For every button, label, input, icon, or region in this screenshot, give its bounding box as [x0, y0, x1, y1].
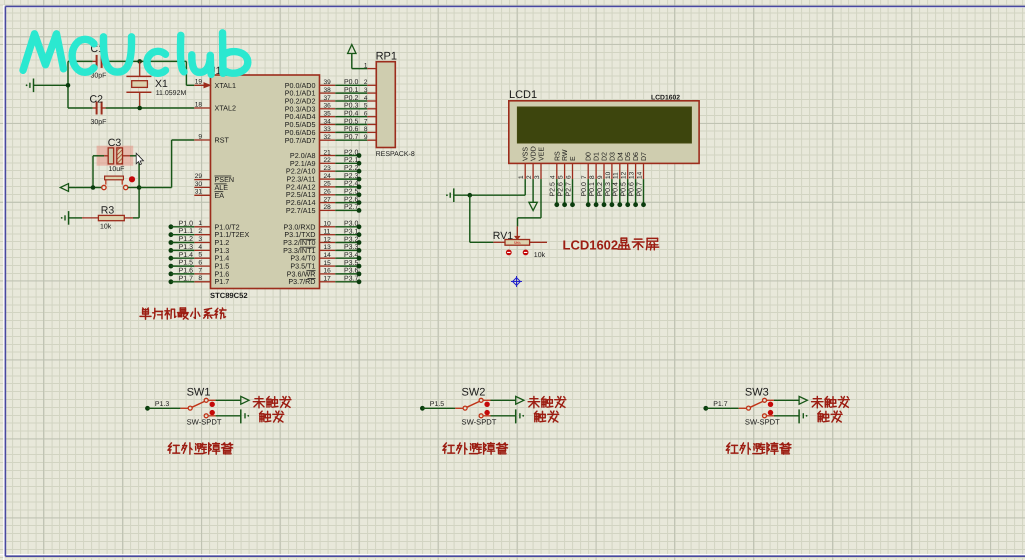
svg-text:P1.3: P1.3	[179, 244, 194, 251]
svg-text:9: 9	[198, 133, 202, 140]
svg-text:RV1: RV1	[493, 230, 513, 242]
svg-text:SW1: SW1	[187, 386, 211, 398]
svg-text:37: 37	[324, 95, 332, 102]
svg-text:P3.7: P3.7	[344, 276, 359, 283]
svg-text:R3: R3	[101, 205, 115, 217]
svg-text:5: 5	[198, 252, 202, 259]
svg-text:P3.0: P3.0	[344, 221, 359, 228]
svg-text:SW-SPDT: SW-SPDT	[187, 418, 222, 427]
svg-text:P1.1: P1.1	[179, 228, 194, 235]
svg-text:P2.6: P2.6	[344, 196, 359, 203]
svg-text:35: 35	[324, 111, 332, 118]
svg-text:P0.3: P0.3	[605, 182, 612, 197]
svg-text:SW2: SW2	[462, 386, 486, 398]
svg-text:P3.4: P3.4	[344, 252, 359, 259]
svg-text:P3.3: P3.3	[344, 244, 359, 251]
svg-text:31: 31	[195, 189, 203, 196]
svg-text:33: 33	[324, 126, 332, 133]
svg-text:3: 3	[534, 175, 541, 179]
svg-text:38: 38	[324, 87, 332, 94]
svg-text:4: 4	[198, 244, 202, 251]
svg-text:VEE: VEE	[539, 147, 546, 161]
svg-text:P0.2: P0.2	[344, 95, 359, 102]
svg-text:3: 3	[198, 236, 202, 243]
svg-text:P0.1: P0.1	[344, 87, 359, 94]
svg-text:P0.4: P0.4	[613, 182, 620, 197]
svg-text:10k: 10k	[100, 223, 112, 231]
svg-text:58%: 58%	[514, 241, 521, 245]
svg-text:P2.7: P2.7	[344, 204, 359, 211]
svg-text:P0.6: P0.6	[629, 182, 636, 197]
svg-text:10k: 10k	[534, 251, 546, 259]
svg-text:P1.5: P1.5	[430, 401, 445, 408]
svg-text:11: 11	[613, 172, 620, 179]
svg-text:LCD1602: LCD1602	[563, 238, 619, 253]
svg-text:11: 11	[324, 229, 331, 236]
svg-text:P0.5: P0.5	[344, 118, 359, 125]
svg-text:24: 24	[324, 173, 332, 180]
svg-text:P0.0: P0.0	[581, 182, 588, 197]
svg-text:P3.6: P3.6	[344, 268, 359, 275]
svg-text:2: 2	[526, 175, 533, 179]
svg-text:STC89C52: STC89C52	[210, 291, 248, 300]
svg-text:12: 12	[324, 236, 332, 243]
svg-text:22: 22	[324, 157, 332, 164]
svg-text:32: 32	[324, 134, 332, 141]
svg-text:1: 1	[364, 62, 368, 69]
svg-text:P0.7: P0.7	[636, 182, 643, 197]
svg-text:SW-SPDT: SW-SPDT	[462, 418, 497, 427]
svg-text:D7: D7	[641, 152, 648, 161]
svg-text:5: 5	[558, 175, 565, 179]
svg-text:6: 6	[364, 111, 368, 118]
svg-text:P0.6: P0.6	[344, 126, 359, 133]
svg-text:XTAL2: XTAL2	[215, 104, 236, 113]
svg-text:13: 13	[629, 171, 636, 179]
svg-text:RS: RS	[554, 151, 561, 161]
svg-text:RESPACK-8: RESPACK-8	[376, 151, 415, 158]
svg-text:34: 34	[324, 118, 332, 125]
svg-text:21: 21	[324, 149, 332, 156]
svg-text:P0.7/AD7: P0.7/AD7	[285, 136, 316, 145]
svg-text:4: 4	[364, 95, 368, 102]
svg-text:2: 2	[198, 228, 202, 235]
svg-text:3: 3	[364, 87, 368, 94]
svg-text:26: 26	[324, 189, 332, 196]
svg-text:1: 1	[198, 220, 202, 227]
svg-text:P2.2: P2.2	[344, 165, 359, 172]
svg-text:14: 14	[636, 171, 643, 179]
svg-text:13: 13	[324, 244, 332, 251]
svg-text:29: 29	[195, 173, 203, 180]
svg-text:VDD: VDD	[531, 146, 538, 161]
svg-text:X1: X1	[155, 78, 168, 90]
svg-text:7: 7	[364, 118, 368, 125]
svg-text:P2.0: P2.0	[344, 149, 359, 156]
svg-text:P1.2: P1.2	[179, 236, 194, 243]
svg-text:6: 6	[198, 259, 202, 266]
svg-text:P1.0: P1.0	[179, 220, 194, 227]
svg-text:P1.4: P1.4	[179, 252, 194, 259]
svg-text:SW-SPDT: SW-SPDT	[745, 418, 780, 427]
svg-text:EA: EA	[215, 191, 225, 200]
svg-text:P2.7: P2.7	[565, 182, 572, 197]
svg-text:D5: D5	[625, 152, 632, 161]
svg-text:2: 2	[364, 79, 368, 86]
svg-text:36: 36	[324, 103, 332, 110]
svg-text:8: 8	[198, 275, 202, 282]
svg-text:XTAL1: XTAL1	[215, 81, 236, 90]
svg-text:P0.5: P0.5	[621, 182, 628, 197]
svg-text:7: 7	[198, 267, 202, 274]
svg-text:SW3: SW3	[745, 386, 769, 398]
svg-text:E: E	[570, 156, 577, 161]
svg-text:16: 16	[324, 268, 332, 275]
svg-text:P1.5: P1.5	[179, 260, 194, 267]
svg-text:11.0592M: 11.0592M	[156, 90, 187, 97]
svg-text:P2.7/A15: P2.7/A15	[286, 206, 316, 215]
svg-text:9: 9	[364, 134, 368, 141]
svg-text:P1.7: P1.7	[215, 277, 230, 286]
svg-text:39: 39	[324, 79, 332, 86]
svg-text:D6: D6	[633, 152, 640, 161]
svg-text:30: 30	[195, 181, 203, 188]
svg-text:P0.2: P0.2	[597, 182, 604, 197]
svg-text:8: 8	[589, 175, 596, 179]
svg-text:C2: C2	[90, 94, 104, 106]
svg-text:5: 5	[364, 103, 368, 110]
svg-text:LCD1: LCD1	[509, 89, 537, 101]
svg-text:P0.1: P0.1	[589, 182, 596, 197]
svg-text:8: 8	[364, 126, 368, 133]
svg-text:28: 28	[324, 204, 332, 211]
svg-text:P1.6: P1.6	[179, 268, 194, 275]
svg-text:P0.7: P0.7	[344, 134, 359, 141]
svg-text:P3.1: P3.1	[344, 229, 359, 236]
svg-text:4: 4	[550, 175, 557, 179]
svg-text:D0: D0	[586, 152, 593, 161]
svg-text:15: 15	[324, 260, 332, 267]
svg-text:25: 25	[324, 181, 332, 188]
svg-text:LCD1602: LCD1602	[651, 95, 680, 102]
svg-text:P2.4: P2.4	[344, 181, 359, 188]
svg-text:23: 23	[324, 165, 332, 172]
svg-text:RP1: RP1	[376, 51, 397, 63]
svg-text:P2.5: P2.5	[550, 182, 557, 197]
svg-text:10: 10	[605, 171, 612, 179]
svg-text:P2.1: P2.1	[344, 157, 359, 164]
svg-text:D4: D4	[617, 152, 624, 161]
svg-text:P2.5: P2.5	[344, 189, 359, 196]
svg-text:RW: RW	[562, 149, 569, 161]
svg-text:P2.3: P2.3	[344, 173, 359, 180]
svg-text:P0.0: P0.0	[344, 79, 359, 86]
svg-text:12: 12	[621, 171, 628, 179]
svg-text:P3.5: P3.5	[344, 260, 359, 267]
svg-text:D2: D2	[602, 152, 609, 161]
svg-text:D1: D1	[594, 152, 601, 161]
svg-text:19: 19	[195, 79, 203, 86]
svg-text:18: 18	[195, 101, 203, 108]
svg-text:10: 10	[324, 221, 332, 228]
svg-text:14: 14	[324, 252, 332, 259]
svg-text:RST: RST	[215, 136, 230, 145]
svg-text:9: 9	[597, 175, 604, 179]
svg-text:27: 27	[324, 196, 332, 203]
svg-text:P1.3: P1.3	[155, 401, 170, 408]
svg-text:P2.6: P2.6	[558, 182, 565, 197]
svg-text:17: 17	[324, 276, 332, 283]
svg-text:P0.4: P0.4	[344, 111, 359, 118]
svg-text:P1.7: P1.7	[179, 275, 194, 282]
svg-text:1: 1	[518, 175, 525, 179]
svg-text:D3: D3	[609, 152, 616, 161]
svg-text:VSS: VSS	[523, 147, 530, 161]
svg-text:10uF: 10uF	[109, 166, 125, 173]
svg-text:P0.3: P0.3	[344, 103, 359, 110]
svg-text:P1.7: P1.7	[713, 401, 728, 408]
svg-text:6: 6	[565, 175, 572, 179]
svg-text:P3.2: P3.2	[344, 236, 359, 243]
svg-text:7: 7	[581, 175, 588, 179]
svg-text:30pF: 30pF	[91, 119, 107, 126]
